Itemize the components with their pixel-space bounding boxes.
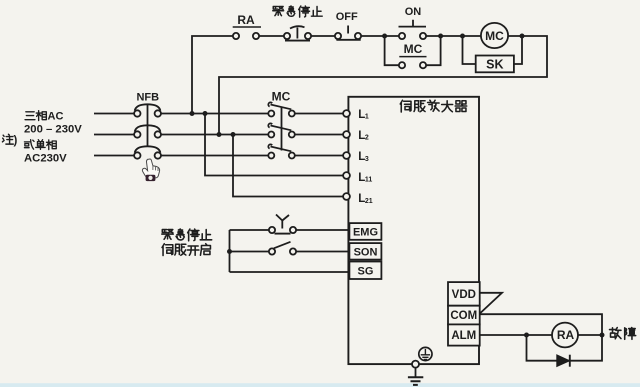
svg-text:ALM: ALM [451,330,476,342]
wire SG line [230,271,350,273]
label emergency stop top 紧急停止 [273,6,322,17]
breaker NFB pole 3 [134,146,161,158]
node junction SK right [520,34,525,39]
wire phase R NFB to MC [161,113,268,115]
wire phase S NFB to MC [161,134,268,136]
svg-text:MC: MC [485,29,504,43]
wire control top line left segment with drop to phase L1 [192,36,233,114]
label servo amplifier 伺服放大器 [400,100,466,112]
coil MC [481,23,508,48]
svg-text:OFF: OFF [336,11,358,23]
svg-text:): ) [14,135,18,147]
wire MC aux branch right [426,36,441,65]
wire MC to L2 [295,134,343,136]
pushbutton OFF NC [335,26,361,40]
node diode left tap [524,333,529,338]
wire emergency stop to OFF [311,35,335,37]
terminal L2 [343,131,350,138]
wire MC aux branch left [385,36,399,65]
label or single phase 或单相 [24,140,56,150]
node on L2 for L21 [231,132,236,137]
wire ON to MC coil [426,35,481,37]
wire EMG left bus [229,230,231,272]
box terminal SON [349,243,381,260]
svg-text:SG: SG [358,265,374,277]
node junction SK left [460,34,465,39]
node junction after OFF [382,34,387,39]
svg-text:3: 3 [365,156,369,163]
label three-phase AC 三相AC [25,111,63,123]
svg-text:ON: ON [405,6,422,18]
cursor hand pointer [142,159,159,181]
terminal L3 [343,152,350,159]
node on L2 for control bus [217,132,222,137]
wire phase R input [94,113,134,115]
diode D1 [557,355,570,367]
ground earth bars [408,377,423,385]
label L11 [358,172,372,184]
box servo amplifier [348,97,479,364]
svg-text:200 – 230V: 200 – 230V [24,123,82,135]
wire L11 feed [205,114,343,176]
wire COM to relay right side [480,314,602,335]
wire ground stem [415,368,417,377]
wire SON line [230,251,350,253]
wire SK branch right [514,36,522,64]
svg-text:NFB: NFB [136,91,159,103]
svg-text:RA: RA [557,328,575,342]
box terminal ALM [448,324,480,345]
breaker NFB pole 1 [134,104,161,116]
label note 注) [2,134,17,147]
terminal L21 [343,193,350,200]
pushbutton emergency stop NC [284,26,311,40]
wire L21 feed [233,135,343,197]
contactor MC pole 3 [268,144,295,158]
wire MC to L1 [295,113,343,115]
svg-text:21: 21 [365,198,373,205]
svg-text:2: 2 [365,135,369,142]
box SK surge absorber [476,56,514,73]
terminal PE circle on amplifier [419,347,432,360]
box terminal COM [448,306,480,325]
label L3 [358,151,369,163]
node junction ON/MC right [438,34,443,39]
svg-text:SK: SK [486,58,503,72]
label L2 [358,130,369,142]
terminal L11 [343,172,350,179]
relay coil RA [552,323,578,348]
node on L1 for control [190,111,195,116]
wire OFF to ON junction [361,35,399,37]
wire diode branch [527,335,603,361]
node on L1 for L11 [203,111,208,116]
svg-text:1: 1 [365,114,369,121]
wire VDD-COM jumper [480,293,502,314]
MC linkage [281,107,283,151]
NFB linkage [147,105,149,147]
wire RA right lead [578,334,602,336]
wire phase T input [94,155,134,157]
wire MC to L3 [295,155,343,157]
label servo on 伺服开启 [162,244,210,256]
label fault 故障 [610,328,636,340]
svg-text:AC230V: AC230V [24,152,67,164]
cursor click box [146,175,156,181]
contact SON NO [269,242,296,255]
svg-text:EMG: EMG [353,227,378,239]
wire RA to emergency stop [259,35,284,37]
box terminal VDD [448,282,480,306]
contactor MC pole 2 [268,123,295,137]
pushbutton ON NO [399,20,427,39]
wire ALM to relay RA [480,334,552,336]
svg-text:RA: RA [237,13,255,27]
node SON tap [227,249,232,254]
label L21 [358,193,372,205]
node relay right tap [600,333,605,338]
wire phase T NFB to MC [161,155,268,157]
contact RA [233,27,261,39]
wire MC coil right to corner and bottom control bus to phase L2 [219,36,547,135]
terminal L1 [343,110,350,117]
pushbutton emergency stop EMG NC [269,215,296,234]
terminal ground circle on box edge [412,361,419,368]
contact MC aux NO [399,57,427,69]
svg-text:11: 11 [365,177,373,184]
svg-text:SON: SON [354,246,378,258]
box terminal EMG [349,223,381,240]
box terminal SG [349,262,381,280]
svg-text:MC: MC [404,42,423,56]
contactor MC pole 1 [268,102,295,116]
svg-text:COM: COM [450,310,477,322]
label emergency stop left 紧急停止 [162,229,212,241]
svg-text:VDD: VDD [452,289,476,301]
wire phase S input [94,134,134,136]
svg-text:AC: AC [48,111,64,123]
wire SK branch left [463,36,476,64]
wire EMG line [230,229,350,231]
bottom blue strip [0,383,640,387]
breaker NFB pole 2 [134,125,161,137]
svg-text:MC: MC [272,90,291,104]
label L1 [358,109,369,121]
